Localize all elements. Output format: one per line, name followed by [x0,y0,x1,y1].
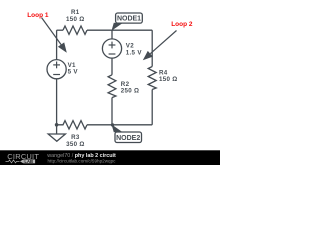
junction dot [111,123,114,126]
ground [48,125,65,142]
wire [87,124,152,126]
svg-text:250 Ω: 250 Ω [121,88,140,95]
svg-text:LAB: LAB [24,159,33,164]
loop 1 annotation [27,12,67,53]
svg-text:5 V: 5 V [68,69,79,76]
svg-text:R1: R1 [71,9,80,16]
footer CircuitLab logo [6,152,40,164]
resistor R2 [108,75,116,98]
node NODE1 [112,13,143,31]
svg-text:150 Ω: 150 Ω [159,76,178,83]
R4 value labels [159,69,178,83]
svg-text:Loop 2: Loop 2 [171,21,193,28]
R2 value labels [121,81,140,94]
svg-text:Loop 1: Loop 1 [27,12,49,19]
voltage source V1 [47,60,66,79]
wire [111,30,113,39]
svg-text:V2: V2 [126,42,134,49]
V1 value labels [68,62,79,76]
wire [56,30,58,59]
V2 value labels [126,42,143,56]
svg-text:150 Ω: 150 Ω [66,16,85,23]
node NODE2 [112,124,142,142]
resistor R1 [63,26,87,34]
junction dot [55,123,59,127]
wire [151,30,153,66]
voltage source V2 [102,39,121,58]
footer bar [0,150,220,165]
R3 value labels [66,134,85,148]
R1 value labels [66,9,85,23]
wire [111,98,113,125]
svg-text:NODE2: NODE2 [116,135,140,142]
svg-text:NODE1: NODE1 [117,16,141,23]
wire [57,29,63,31]
wire [151,90,153,125]
svg-text:1.5 V: 1.5 V [126,50,143,57]
wire [56,79,58,125]
resistor R3 [57,121,87,129]
loop 2 annotation [143,21,193,60]
wire [111,58,113,75]
svg-text:350 Ω: 350 Ω [66,141,85,148]
resistor R4 [148,67,156,90]
svg-text:R3: R3 [71,134,80,141]
footer caption text [46,153,116,163]
wire [87,29,152,31]
svg-text:http://circuitlab.com/c/59hp2w: http://circuitlab.com/c/59hp2wqpc [48,158,117,163]
